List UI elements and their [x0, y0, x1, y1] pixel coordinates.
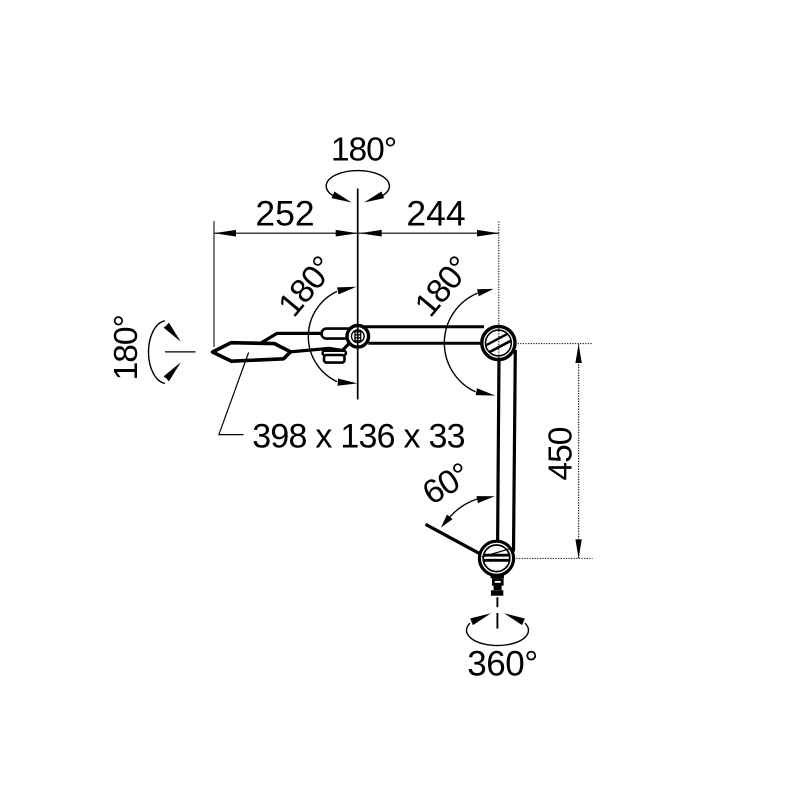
svg-text:398 x 136 x 33: 398 x 136 x 33: [252, 418, 465, 456]
joint 3 inner circle: [483, 545, 510, 572]
extension line left (x=214): [213, 221, 215, 347]
extension line 450 bottom: [514, 557, 593, 559]
svg-text:180°: 180°: [408, 250, 478, 324]
joint 1 slot: [354, 331, 356, 343]
leader line for head size: [219, 353, 249, 435]
arc 180deg at joint 2: [444, 293, 477, 392]
dimension line 450: [578, 344, 580, 559]
extension line 450 top: [515, 343, 593, 345]
svg-text:180°: 180°: [271, 250, 341, 324]
joint 1 outer ring: [347, 326, 369, 348]
rotation symbol left: bottom arrowhead: [164, 362, 181, 381]
stem middle box: [495, 587, 501, 589]
arc 180deg at joint 1: [308, 291, 337, 381]
head lower link: [290, 340, 353, 352]
stem upper box: [493, 580, 502, 585]
clamp bar below fork: [323, 351, 347, 355]
svg-text:60°: 60°: [416, 456, 476, 512]
head fork bar: [322, 329, 355, 339]
dimension line 252/244: [214, 232, 499, 234]
rotation symbol left: ellipse arc: [148, 321, 164, 384]
dim 450 bottom arrowhead: [575, 539, 581, 558]
joint 3 outer ring: [479, 541, 513, 575]
svg-text:252: 252: [255, 194, 314, 234]
rotation symbol bottom: right arrowhead: [504, 613, 525, 625]
svg-text:244: 244: [406, 194, 465, 234]
knob below clamp: [324, 355, 345, 363]
arc 60deg: [450, 499, 478, 517]
center line through upper joint: [357, 189, 359, 400]
joint 2 diagonal slots: [489, 341, 511, 353]
head upper link: [261, 333, 324, 343]
rotation symbol left: top arrowhead: [164, 323, 181, 342]
arc 180deg joint1 top arrowhead: [337, 287, 356, 295]
joint 3 slot bars: [484, 554, 510, 557]
vertical arm right line: [514, 350, 516, 552]
svg-text:360°: 360°: [467, 645, 537, 684]
stem neck: [491, 575, 504, 578]
joint 1 inner circle: [352, 330, 365, 343]
60deg leg line: [426, 524, 481, 554]
rotation symbol top: left arrowhead: [332, 192, 352, 203]
lamp head outline: [213, 343, 291, 362]
arc 60deg bottom arrowhead: [441, 515, 453, 528]
stem foot: [491, 590, 503, 595]
rotation symbol left: center tick: [165, 351, 196, 353]
arc 180deg joint1 bottom arrowhead: [338, 379, 358, 386]
dim arrow right end: [477, 230, 499, 237]
svg-text:180°: 180°: [108, 315, 145, 380]
arm top line: [352, 325, 484, 328]
arc 180deg joint2 top arrowhead: [477, 289, 494, 296]
joint 3 thin diagonal: [482, 549, 511, 558]
arm bottom line: [368, 342, 483, 345]
svg-text:180°: 180°: [331, 132, 396, 169]
dim arrow left end: [214, 230, 236, 237]
joint 2 inner circle: [486, 330, 512, 356]
dim 450 top arrowhead: [575, 344, 581, 363]
arc 60deg top arrowhead: [477, 496, 495, 503]
rotation symbol top: right arrowhead: [364, 192, 384, 203]
dashed center line below stem: [496, 597, 498, 607]
joint 2 outer ring: [482, 326, 515, 359]
dim arrow center pointing left: [360, 230, 382, 237]
rotation symbol top: ellipse arc: [326, 171, 389, 196]
rotation symbol bottom: ellipse arc: [467, 623, 529, 645]
arc 180deg joint2 bottom arrowhead: [476, 388, 496, 395]
vertical arm left line: [498, 355, 499, 544]
svg-text:450: 450: [543, 427, 580, 480]
rotation symbol bottom: left arrowhead: [470, 613, 491, 625]
dim arrow center pointing right: [336, 230, 358, 237]
extension line right (x=498.8): [498, 222, 500, 396]
